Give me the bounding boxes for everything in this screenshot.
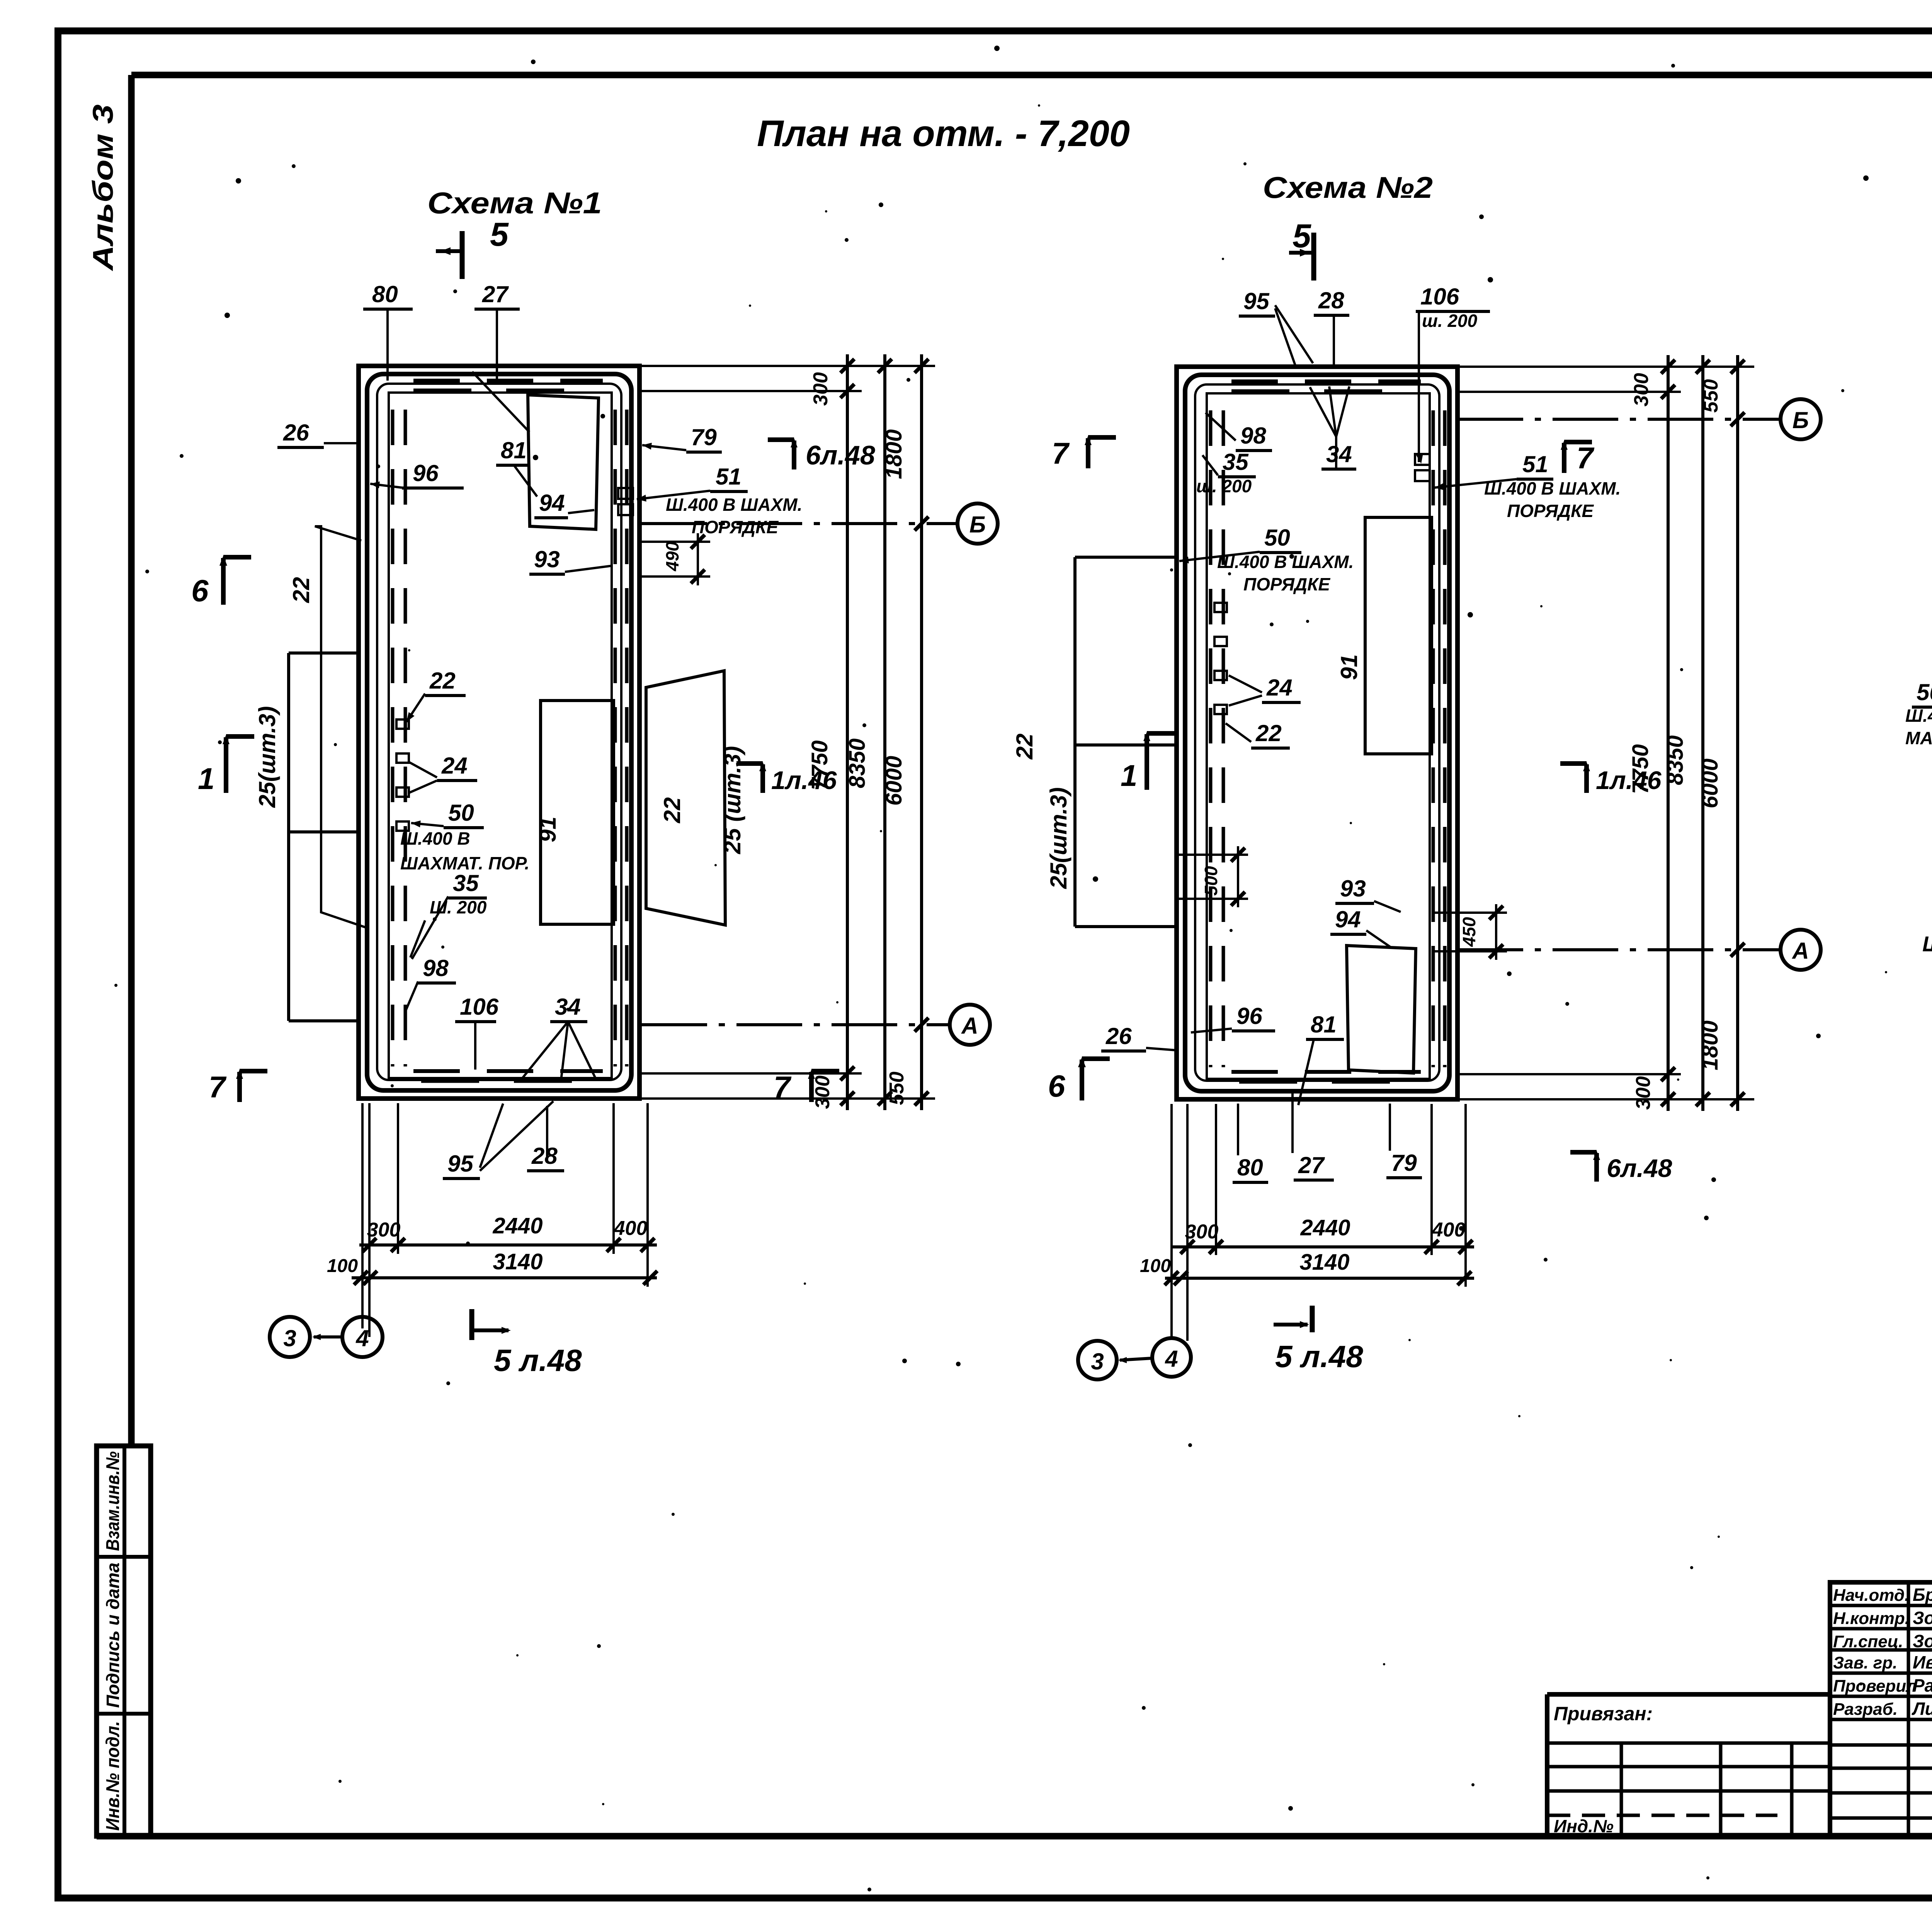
s1 axis B line [641,522,957,525]
s1 left wall hook bar [396,753,409,763]
s1 axis A line [641,1023,949,1026]
s1 right wall rebar dashes [614,410,617,1066]
svg-text:8350: 8350 [845,738,870,788]
svg-text:Зорин: Зорин [1913,1608,1932,1628]
s2 top wall rebar dashes [1231,379,1421,383]
svg-text:81: 81 [1311,1012,1337,1037]
s1 ext line bottom [639,1097,935,1100]
svg-text:6000: 6000 [1697,759,1723,808]
left attribute strip [97,1446,151,1836]
s1 left wall hook bar [396,719,409,729]
svg-text:22: 22 [429,668,456,694]
svg-text:Нач.отд.: Нач.отд. [1833,1586,1909,1605]
s2 dim 450 bottom [1432,950,1507,952]
svg-text:5 л.48: 5 л.48 [494,1343,582,1378]
svg-text:Ш.400 В ШАХМ.: Ш.400 В ШАХМ. [666,495,802,515]
svg-text:1: 1 [1121,759,1137,793]
drawing inner frame bottom [97,1833,1932,1840]
s1 ext line top [639,365,935,367]
svg-text:ПОРЯДКЕ: ПОРЯДКЕ [1243,574,1330,594]
privyazan grid line 2 [1547,1765,1830,1769]
svg-text:34: 34 [555,994,581,1020]
svg-text:3: 3 [283,1325,296,1351]
s2 pit 91 rectangle [1365,517,1432,754]
privyazan grid column [1790,1743,1794,1836]
svg-text:27: 27 [482,281,509,307]
s2 bottom dim line 2 [1165,1277,1474,1280]
svg-text:3140: 3140 [493,1249,543,1274]
s1 left bracket middle [289,830,359,833]
s1 left wall rebar dashes [404,410,407,1066]
svg-text:91: 91 [535,816,561,842]
s2 right wall hook lower [1415,470,1430,481]
svg-text:94: 94 [539,490,565,516]
privyazan grid column [1620,1743,1623,1836]
svg-text:79: 79 [1391,1150,1417,1176]
staff table row line [1830,1604,1932,1607]
s2 ext 300 bottom [1458,1073,1681,1075]
svg-text:7: 7 [209,1070,227,1104]
svg-text:Гл.спец.: Гл.спец. [1833,1632,1903,1651]
svg-text:Проверил: Проверил [1833,1677,1917,1696]
svg-text:300: 300 [1185,1221,1219,1243]
s2 left wall hook bar [1214,637,1227,646]
s1 bottom wall rebar dashes 2 [421,1080,587,1083]
svg-text:ПОРЯДКЕ: ПОРЯДКЕ [692,517,779,537]
svg-text:35: 35 [453,870,479,896]
svg-text:2440: 2440 [492,1213,543,1238]
svg-text:А: А [1791,938,1809,964]
svg-text:50: 50 [448,800,474,826]
s2 wall inner contour [1185,375,1449,1091]
s1 dim 490 ext bottom [641,575,710,578]
s1 top wall rebar dashes 2 [413,389,595,392]
svg-text:6: 6 [191,573,209,608]
s1 right wall hook upper [618,488,633,499]
s2 dim 500 line [1237,846,1239,907]
s2 bottom ext line right inner [1430,1104,1433,1255]
staff table row line [1830,1648,1932,1652]
svg-text:Н.контр.: Н.контр. [1833,1609,1910,1628]
strip divider vertical [122,1446,126,1836]
s1 left wall rebar dashes [391,410,395,1066]
s2 right wall rebar dashes [1432,410,1435,1067]
s1 mark 5 line [436,249,461,253]
privyazan left line [1545,1694,1549,1836]
svg-text:ш. 200: ш. 200 [1196,476,1252,496]
svg-text:5 л.48: 5 л.48 [1275,1339,1363,1374]
svg-text:2440: 2440 [1300,1215,1350,1240]
svg-text:Разраб.: Разраб. [1833,1700,1898,1719]
svg-text:25(шт.3): 25(шт.3) [1046,787,1071,889]
svg-text:79: 79 [691,424,717,450]
svg-text:7: 7 [1052,436,1070,470]
s1 dim 490 line [697,533,699,585]
s2 left bracket vertical [1073,557,1077,927]
svg-text:51: 51 [716,464,742,490]
s1 axis B circle [957,503,998,544]
s2 left wall hook bar [1214,705,1227,714]
s1 pit 91 rectangle [541,701,614,924]
staff table row line [1830,1672,1932,1675]
s2 axis B line [1458,418,1780,421]
strip divider 2 [97,1712,151,1716]
svg-text:5: 5 [1293,218,1311,255]
svg-text:Ш.400 В ШАХ-: Ш.400 В ШАХ- [1905,706,1932,726]
svg-text:400: 400 [614,1217,648,1240]
svg-text:6л.48: 6л.48 [806,440,875,470]
staff table row line [1830,1627,1932,1631]
svg-text:91: 91 [1336,654,1362,680]
svg-text:300: 300 [811,1075,834,1109]
s2 left bracket bottom [1075,925,1177,928]
svg-text:28: 28 [1318,287,1344,313]
svg-text:98: 98 [1240,423,1266,449]
svg-text:550: 550 [886,1071,908,1105]
svg-text:450: 450 [1459,917,1479,947]
s2 bottom ext line left inner [1215,1104,1217,1255]
s2 axis A circle [1781,930,1821,970]
svg-text:Привязан:: Привязан: [1554,1703,1653,1725]
svg-text:МАТНОМ ПОРЯДКЕ: МАТНОМ ПОРЯДКЕ [1905,728,1932,748]
s2 left bracket top [1075,556,1177,559]
svg-text:Взам.инв.№: Взам.инв.№ [103,1451,123,1551]
svg-text:1800: 1800 [881,429,906,479]
svg-text:98: 98 [423,955,449,981]
s1 ext line 300 bottom [639,1072,862,1075]
svg-text:106: 106 [460,994,499,1020]
s2 bottom dim line 1 [1173,1245,1474,1248]
svg-text:26: 26 [1105,1023,1132,1049]
svg-text:50: 50 [1264,525,1290,551]
svg-text:100: 100 [327,1256,358,1276]
staff table row line [1830,1695,1932,1698]
s1 bottom dim line 2 [352,1276,657,1279]
svg-text:106: 106 [1420,284,1459,310]
svg-text:93: 93 [534,546,560,572]
s2 mark 5l48 bar [1310,1306,1315,1332]
svg-text:6000: 6000 [881,756,906,806]
svg-text:Альбом 3: Альбом 3 [87,104,119,271]
s1 dim 490 ext top [641,541,710,543]
privyazan top line [1547,1692,1830,1697]
s1 right wall hook lower [618,504,633,515]
privyazan grid column [1719,1743,1723,1836]
svg-text:300: 300 [810,372,832,406]
s1 left slanted bracket [315,526,369,929]
svg-text:7: 7 [1577,441,1595,475]
svg-text:Б: Б [1793,407,1809,433]
s2 left wall rebar dashes [1209,410,1213,1067]
s1 opening contour [389,393,612,1078]
svg-text:План на отм. - 7,200: План на отм. - 7,200 [757,113,1130,154]
s2 left wall hook bar [1214,603,1227,612]
s2 axis 4 circle [1152,1338,1191,1377]
svg-text:1л.46: 1л.46 [1596,766,1662,794]
svg-text:81: 81 [501,437,527,463]
svg-text:А: А [961,1013,978,1039]
s2 top wall rebar dashes 2 [1231,389,1413,393]
staff table row line [1830,1718,1932,1721]
s2 right wall hook upper [1415,454,1430,465]
svg-text:80: 80 [1237,1155,1263,1180]
svg-text:34: 34 [1326,441,1352,467]
staff table row line [1830,1816,1932,1820]
s1 axis connector arrow [312,1334,321,1340]
svg-text:Ш.400 В: Ш.400 В [400,828,470,849]
s1 bottom ext line right outer [646,1103,649,1287]
staff table row line [1830,1743,1932,1747]
s1 bottom ext line right inner [612,1103,615,1254]
svg-text:Подпись и дата: Подпись и дата [103,1563,123,1708]
svg-text:Схема №1: Схема №1 [427,186,602,220]
svg-text:94: 94 [1335,906,1361,932]
svg-text:24: 24 [441,753,468,779]
svg-text:1800: 1800 [1697,1020,1723,1070]
svg-text:ПОРЯДКЕ: ПОРЯДКЕ [1507,501,1594,521]
s2 dim chain 2 [1701,355,1704,1111]
privyazan grid line 1 [1547,1742,1830,1745]
staff table outline [1830,1582,1932,1836]
s1 left wall hook bar [396,821,409,831]
svg-text:22: 22 [288,577,314,603]
svg-text:80: 80 [372,281,398,307]
s1 outer wall contour [359,366,639,1099]
svg-text:8350: 8350 [1663,735,1688,785]
svg-text:ШОВ БЕТОНИ-: ШОВ БЕТОНИ- [1922,932,1932,956]
title block [1547,1530,1932,1917]
svg-text:300: 300 [367,1219,401,1241]
s2 left wall hook bar [1214,671,1227,680]
svg-text:1л.46: 1л.46 [771,766,837,794]
svg-text:4: 4 [355,1325,369,1351]
svg-text:95: 95 [1243,288,1270,314]
svg-text:51: 51 [1522,451,1548,477]
svg-text:Схема №2: Схема №2 [1263,170,1433,204]
svg-text:1: 1 [198,762,214,796]
s1 axis 3 circle [270,1317,310,1357]
svg-text:Иванова: Иванова [1913,1652,1932,1672]
s1 right wall rebar dashes [625,410,629,1066]
s2 dim 450 top [1432,912,1507,914]
svg-text:Радько: Радько [1913,1675,1932,1696]
svg-text:22: 22 [1012,733,1037,760]
svg-text:25(шт.3): 25(шт.3) [254,706,280,808]
svg-text:35: 35 [1223,449,1249,475]
s2 ext top [1458,366,1754,368]
s2 right wall rebar dashes [1443,410,1447,1067]
svg-text:100: 100 [1140,1256,1171,1276]
svg-text:300: 300 [1632,1076,1655,1110]
svg-text:50: 50 [1917,679,1932,705]
s2 axis 4 line [1170,1104,1173,1338]
s1 dim chain 2 [883,354,886,1110]
s1 bottom ext line left outer [368,1103,371,1337]
svg-text:4: 4 [1165,1346,1178,1372]
s2 ext bottom [1458,1098,1754,1100]
s2 dim 500 top [1179,854,1248,856]
svg-text:95: 95 [447,1151,474,1177]
s1 bottom ext line left inner [397,1103,399,1254]
svg-text:550: 550 [1700,379,1722,413]
s2 axis B circle [1781,399,1821,439]
s1 dim chain 3 [920,354,923,1110]
s2 axis A line [1458,948,1780,951]
svg-text:Инв.№ подл.: Инв.№ подл. [103,1721,123,1831]
s1 left bracket top [289,651,359,655]
svg-text:22: 22 [659,797,685,823]
svg-text:Б: Б [969,512,986,537]
svg-text:7: 7 [774,1070,792,1104]
svg-text:3140: 3140 [1299,1250,1349,1275]
s2 bottom ext line left outer [1186,1104,1189,1341]
staff table column line [1907,1582,1910,1836]
svg-text:5: 5 [490,216,509,253]
s2 dim chain 1 [1667,355,1670,1111]
svg-text:Зав. гр.: Зав. гр. [1833,1653,1897,1672]
s2 opening 81 quad [1347,946,1416,1073]
svg-text:Инд.№: Инд.№ [1554,1816,1614,1836]
s2 ext 300 [1458,391,1681,393]
svg-text:22: 22 [1255,720,1282,746]
privyazan grid line 4 [1547,1814,1777,1817]
s1 bottom wall rebar dashes [413,1069,603,1073]
s2 dim chain 3 [1736,355,1739,1111]
svg-text:Личкатая: Личкатая [1912,1699,1932,1719]
s2 reinforcement contour [1195,384,1439,1081]
privyazan grid line 3 [1547,1789,1830,1793]
staff table row line [1830,1767,1932,1770]
s1 dim chain 1 [846,354,849,1110]
s1 top wall rebar dashes [413,379,603,383]
svg-text:3: 3 [1091,1349,1104,1374]
drawing inner frame left [128,75,135,1446]
svg-text:24: 24 [1266,675,1293,701]
section 7-7 view [1905,237,1932,1256]
svg-text:93: 93 [1340,876,1366,901]
svg-text:6л.48: 6л.48 [1607,1154,1672,1182]
s1 axis A circle [950,1005,990,1045]
svg-text:6: 6 [1048,1069,1065,1103]
svg-text:Зорин: Зорин [1913,1631,1932,1651]
svg-text:27: 27 [1298,1152,1325,1178]
s1 left bracket bottom [289,1019,359,1022]
svg-text:300: 300 [1630,373,1653,406]
svg-text:96: 96 [413,460,439,486]
svg-text:Бродский: Бродский [1913,1585,1932,1605]
s2 outer wall contour [1177,367,1458,1099]
s1 mark 5l48 bar [469,1309,474,1340]
s1 mark 5 bar [460,231,465,279]
svg-text:26: 26 [283,420,309,446]
s1 left wall hook bar [396,787,409,797]
svg-text:ш. 200: ш. 200 [1422,311,1478,331]
s2 opening contour [1207,393,1430,1079]
schema 2 plan view [1012,218,1821,1379]
s2 axis 3 circle [1078,1341,1117,1379]
s1 opening 81 quad [528,395,599,529]
s2 bottom ext line right outer [1464,1104,1467,1287]
s1 wall inner contour [367,374,631,1090]
s1 ext line 300 top [639,390,862,392]
s2 bottom wall rebar dashes 2 [1239,1080,1405,1084]
svg-text:96: 96 [1236,1003,1262,1029]
drawing inner frame top [131,72,1932,78]
svg-text:500: 500 [1201,866,1221,896]
svg-text:28: 28 [531,1143,558,1169]
s1 leader into quad [472,372,529,432]
staff table row line [1830,1791,1932,1795]
s2 dim 450 line [1495,904,1497,960]
schema 1 plan view [191,216,998,1378]
strip divider 1 [97,1555,151,1559]
s2 axis connector arrow [1118,1357,1127,1363]
s2 bottom wall rebar dashes [1231,1070,1421,1074]
s2 left wall rebar dashes [1222,410,1225,1067]
s2 left bracket middle [1075,743,1177,747]
s1 bottom dim line 1 [359,1243,657,1247]
s1 right parallelogram 22 [646,671,725,925]
svg-text:490: 490 [662,541,682,571]
s1 axis 4 circle [342,1317,383,1357]
s2 dim 500 bottom [1179,898,1248,900]
s1 left bracket 25 vertical [287,653,290,1021]
s1 axis 4 line [361,1103,364,1328]
s1 reinforcement contour [377,384,621,1080]
